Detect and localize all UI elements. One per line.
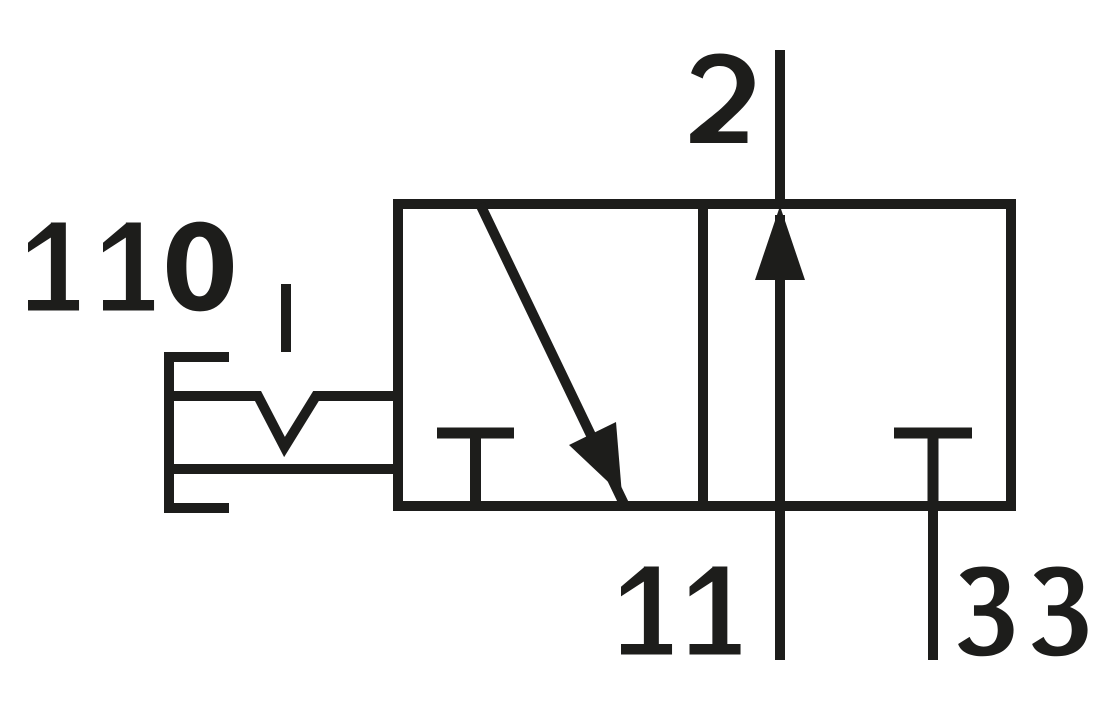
blocked port symbol left position (T) [437, 433, 514, 506]
valve position divider [698, 204, 708, 506]
label port 2 [690, 54, 754, 144]
port 2 connection line [775, 50, 785, 204]
label 110 (device id) [28, 222, 233, 312]
detent notch line [169, 396, 398, 447]
port 3 connection line [928, 506, 938, 660]
manual actuator bracket [169, 357, 229, 508]
arrowhead right position (up) [755, 206, 805, 280]
actuator lower connecting line [169, 464, 398, 474]
flow path arrow shaft, left position (2 to exhaust) [480, 204, 625, 506]
arrowhead left position (down-right) [569, 422, 622, 495]
label port 33 [958, 567, 1087, 657]
blocked port symbol right position (T) [894, 433, 972, 506]
valve body outer frame [398, 204, 1011, 506]
detent pin [281, 284, 291, 352]
port 1 connection line [775, 506, 785, 660]
label port 11 [621, 567, 741, 655]
flow path arrow shaft, right position (1 to 2) [775, 215, 785, 506]
